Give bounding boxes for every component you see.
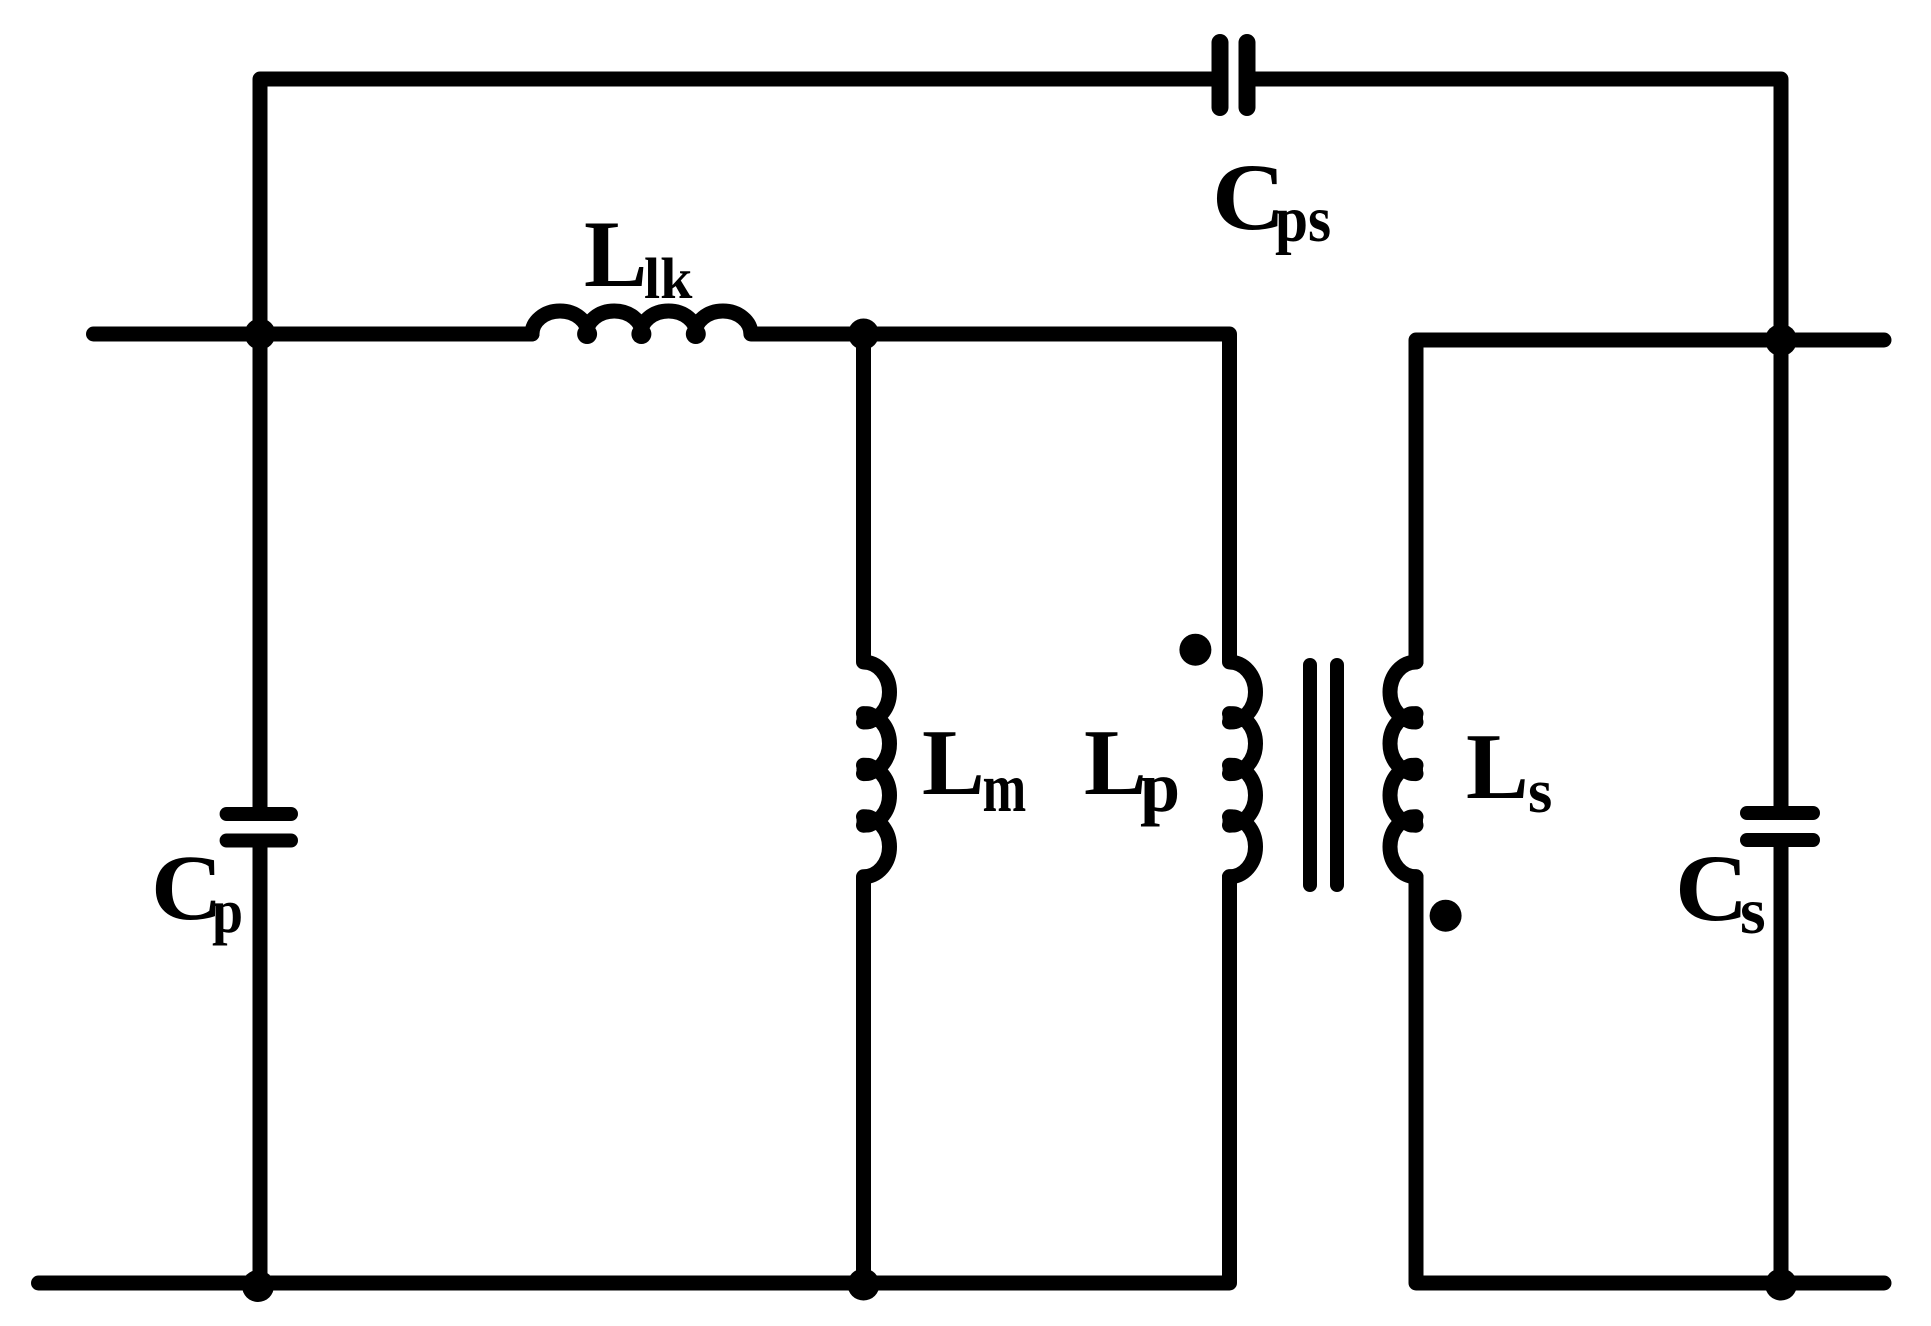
wire: left input stub and middle rail to Llk: [94, 327, 533, 342]
wire: right vertical between Cs and bottom rail: [1774, 847, 1789, 1283]
wire: bottom rail left segment up to Lp branch: [39, 877, 1230, 1283]
wire: Lm branch lower wire: [856, 877, 871, 1283]
svg-text:m: m: [983, 750, 1027, 827]
capacitor Cp plate top: [227, 807, 291, 821]
wire: middle rail from Llk to Lp branch corner: [751, 334, 1230, 662]
label Lp: [1084, 711, 1180, 827]
svg-text:s: s: [1740, 875, 1766, 948]
svg-text:lk: lk: [644, 246, 693, 311]
wire: Ls branch upper wire, corner and right middle rail to stub: [1416, 340, 1884, 662]
wire: Lm branch upper wire: [856, 334, 871, 662]
capacitor Cp plate bottom: [227, 834, 291, 848]
wire: left vertical lower segment (below Cp): [253, 848, 268, 1284]
junction node: bottom rail / Cs branch: [1765, 1269, 1797, 1301]
junction node: left rail / middle rail: [245, 319, 276, 350]
transformer core line left: [1303, 665, 1317, 885]
svg-text:p: p: [212, 876, 243, 945]
capacitor Cps plate right: [1239, 43, 1256, 108]
transformer primary winding Lp: [1223, 662, 1256, 877]
wire: top rail (left of Cps) and left vertical upper segment: [260, 79, 1212, 807]
transformer polarity dot (primary): [1179, 634, 1211, 666]
wire: Ls branch lower wire, corner and bottom right rail to stub: [1416, 877, 1884, 1283]
transformer secondary winding Ls: [1390, 662, 1423, 877]
capacitor Cps plate left: [1212, 43, 1229, 108]
label Cps: [1212, 145, 1331, 256]
svg-text:L: L: [584, 201, 647, 307]
inductor Lm coil: [857, 662, 890, 877]
transformer polarity dot (secondary): [1430, 900, 1462, 932]
label Cp: [151, 836, 243, 946]
transformer core line right: [1330, 665, 1344, 885]
capacitor Cs plate top: [1747, 806, 1813, 820]
svg-text:p: p: [1140, 747, 1180, 827]
junction node: bottom rail / Lm branch: [848, 1269, 880, 1301]
junction node: right middle rail / Cs branch: [1765, 324, 1797, 356]
inductor Llk coil: [532, 311, 751, 344]
svg-text:C: C: [1675, 836, 1748, 941]
capacitor Cs plate bottom: [1747, 833, 1813, 847]
svg-text:ps: ps: [1275, 182, 1331, 256]
svg-text:L: L: [922, 711, 985, 815]
label Ls: [1466, 715, 1552, 826]
svg-text:s: s: [1528, 756, 1552, 826]
svg-text:L: L: [1084, 711, 1147, 815]
label Lm: [922, 711, 1026, 827]
label Llk: [584, 201, 693, 311]
svg-text:L: L: [1466, 715, 1529, 819]
label Cs: [1675, 836, 1766, 948]
junction node: bottom rail / Cp branch: [242, 1270, 274, 1302]
junction node: middle rail / Lm branch: [848, 319, 879, 350]
wire: top rail (right of Cps) and right vertical down to Cs: [1256, 79, 1782, 806]
